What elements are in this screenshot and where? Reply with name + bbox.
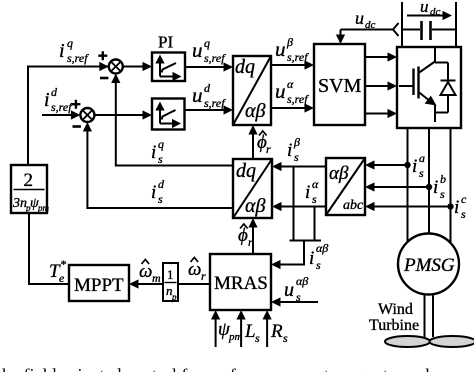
MRAS input Ls <box>240 318 242 347</box>
svg-text:abc: abc <box>343 198 364 213</box>
wire id feedback to S2 <box>87 129 233 209</box>
wire S2 to PI2 <box>94 114 145 116</box>
capacitor C <box>402 21 456 40</box>
svg-text:s: s <box>158 192 163 206</box>
MRAS input Rs <box>266 318 268 347</box>
svg-text:r: r <box>266 142 271 156</box>
label ub s,ref <box>275 35 309 64</box>
label iq s,ref <box>59 36 89 65</box>
blade right <box>430 336 474 347</box>
wire iq feedback to S1 <box>116 80 233 166</box>
shaft <box>424 294 426 337</box>
svg-text:u: u <box>275 79 286 103</box>
wire i alpha-beta bus to MRAS <box>293 167 295 241</box>
svg-text:s: s <box>158 152 163 166</box>
svg-text:s: s <box>255 331 260 345</box>
PI block PI1 <box>152 53 185 82</box>
u_dc sense wire to SVM <box>393 23 399 36</box>
minus sign at S1 <box>100 77 108 80</box>
label ia s <box>412 151 425 180</box>
svg-text:i: i <box>309 248 314 269</box>
svg-text:dc: dc <box>365 19 376 31</box>
svg-text:α: α <box>312 177 319 191</box>
svg-text:u: u <box>355 8 364 28</box>
svg-text:αβ: αβ <box>296 274 308 288</box>
svg-text:αβ: αβ <box>329 163 349 184</box>
svg-text:s: s <box>283 331 288 345</box>
svg-text:ω: ω <box>188 259 201 280</box>
svg-text:a: a <box>419 151 425 165</box>
svg-text:he field-oriented control form: he field-oriented control form of a perm… <box>2 365 467 372</box>
MRAS input psi_pm <box>215 318 217 347</box>
svg-text:u: u <box>420 0 429 16</box>
svg-text:Wind: Wind <box>378 301 413 318</box>
svg-text:s,ref: s,ref <box>287 50 309 64</box>
svg-text:MPPT: MPPT <box>74 275 124 296</box>
wire us alpha-beta to MRAS <box>279 301 318 303</box>
label phi_r hat (lower) <box>238 225 253 249</box>
label ib s <box>433 172 446 201</box>
wire id_s,ref input <box>42 114 73 116</box>
svg-text:α: α <box>287 77 294 91</box>
label id s <box>151 177 165 206</box>
svg-text:s,ref: s,ref <box>204 96 226 110</box>
arrow into summing junction S1 <box>99 62 109 71</box>
converter block <box>397 47 461 128</box>
plus sign at S2 <box>71 100 80 109</box>
svg-text:ω: ω <box>139 261 152 282</box>
wire phi_r hat MRAS to dq2 <box>252 225 254 254</box>
label phi_r hat (upper) <box>257 132 271 156</box>
wire dq1 to SVM (beta) <box>271 64 307 66</box>
label u alpha-beta s <box>284 274 308 304</box>
svg-text:s: s <box>316 258 321 272</box>
svg-text:c: c <box>461 192 467 206</box>
svg-text:s: s <box>294 150 299 164</box>
svg-text:αβ: αβ <box>245 100 265 122</box>
svg-text:s,ref: s,ref <box>67 51 89 65</box>
svg-text:i: i <box>454 197 459 218</box>
summing junction S2 <box>80 108 94 122</box>
u_dc arrow across dc link <box>407 15 445 17</box>
svg-text:s: s <box>296 290 301 304</box>
phase wire a <box>407 128 409 243</box>
label omega_m hat <box>139 261 161 285</box>
wire ic to abc transform <box>372 206 451 208</box>
MPPT block <box>69 265 129 301</box>
IGBT Q1 <box>399 47 437 122</box>
svg-text:q: q <box>67 36 73 50</box>
svg-text:β: β <box>286 35 293 49</box>
svg-text:s,ref: s,ref <box>51 100 73 114</box>
svg-text:u: u <box>284 279 294 301</box>
wire ib to abc transform <box>372 186 429 188</box>
svg-text:i: i <box>44 89 50 111</box>
phase wire c <box>450 128 452 243</box>
svg-text:pm: pm <box>37 203 50 213</box>
wire 1/np to MPPT <box>137 283 163 285</box>
PMSG generator <box>398 234 459 295</box>
svg-text:i: i <box>305 182 310 203</box>
svg-text:1: 1 <box>167 267 174 282</box>
gain block 1/np <box>163 263 178 301</box>
plus sign at S1 <box>98 51 107 60</box>
dc rail left <box>401 2 403 47</box>
wire SVM to converter 1 <box>365 56 390 58</box>
label uq s,ref <box>192 36 226 65</box>
wire MPPT to gain block K <box>29 213 69 284</box>
label i beta s <box>287 135 300 164</box>
svg-text:i: i <box>151 182 156 203</box>
wire PI1 to dq1, uq s,ref <box>185 66 226 68</box>
transform block dq1 (dq to alpha-beta) <box>233 56 271 125</box>
label omega_r hat <box>188 259 206 283</box>
svg-text:s: s <box>419 166 424 180</box>
svg-text:αβ: αβ <box>245 195 265 217</box>
svg-text:s,ref: s,ref <box>204 51 226 65</box>
label Wind Turbine <box>369 301 419 334</box>
freewheeling diode D1 <box>435 63 456 113</box>
svg-text:dc: dc <box>430 6 441 18</box>
svg-text:αβ: αβ <box>316 241 328 255</box>
svg-text:Turbine: Turbine <box>369 317 419 334</box>
svg-text:3n: 3n <box>12 196 27 211</box>
gain block 2/(3 np psi_pm) <box>11 165 47 213</box>
svg-text:e: e <box>59 271 65 285</box>
svg-text:p: p <box>171 292 177 302</box>
svg-text:d: d <box>51 85 58 99</box>
PI block PI2 <box>152 99 185 130</box>
svg-text:i: i <box>433 177 438 198</box>
transform block dq2 (alpha-beta to dq) <box>233 159 272 218</box>
label u_dc (sense) <box>355 8 376 31</box>
MRAS block <box>210 254 271 310</box>
svg-text:β: β <box>293 135 300 149</box>
wire dq1 to SVM (alpha) <box>271 107 307 109</box>
svg-text:s,ref: s,ref <box>287 92 309 106</box>
svg-text:s: s <box>440 187 445 201</box>
svg-text:PI: PI <box>158 33 173 52</box>
svg-text:i: i <box>151 142 156 163</box>
wire ia to abc transform <box>372 164 408 166</box>
svg-text:PMSG: PMSG <box>403 255 455 276</box>
svg-text:u: u <box>192 83 203 107</box>
label ic s <box>454 192 467 221</box>
svg-text:u: u <box>275 37 286 61</box>
wire i alpha to dq2 <box>280 206 326 208</box>
svg-text:b: b <box>440 172 446 186</box>
wire phi_r hat dq2 to dq1 <box>252 132 254 159</box>
minus sign at S2 <box>73 125 81 128</box>
svg-text:dq: dq <box>236 160 256 182</box>
svg-text:L: L <box>244 321 256 342</box>
svg-text:r: r <box>248 235 253 249</box>
label iq s <box>151 137 164 166</box>
svg-text:r: r <box>201 269 206 283</box>
tap node b <box>426 184 432 190</box>
svg-text:s: s <box>461 207 466 221</box>
SVM block <box>314 44 365 125</box>
svg-text:q: q <box>204 36 210 50</box>
tap node c <box>447 203 453 209</box>
label u_dc (dc link) <box>420 0 441 18</box>
blade left <box>385 336 430 347</box>
svg-text:d: d <box>158 177 165 191</box>
summing junction S1 <box>109 60 123 74</box>
svg-text:dq: dq <box>235 56 255 78</box>
svg-text:q: q <box>158 137 164 151</box>
svg-text:i: i <box>59 40 65 62</box>
svg-text:2: 2 <box>24 170 34 191</box>
label id s,ref <box>44 85 73 114</box>
wire i beta to dq2 <box>280 166 326 168</box>
tap node a <box>404 162 410 168</box>
wire SVM to converter 3 <box>365 113 390 115</box>
dc rail right <box>455 2 457 47</box>
svg-text:i: i <box>412 156 417 177</box>
svg-text:m: m <box>152 271 161 285</box>
transform block abc to alpha-beta <box>326 158 365 215</box>
label i alpha s <box>305 177 319 206</box>
svg-text:s: s <box>312 192 317 206</box>
svg-text:u: u <box>192 38 203 62</box>
wire MRAS to 1/np <box>178 283 210 285</box>
svg-text:SVM: SVM <box>318 75 362 97</box>
label i alpha-beta s <box>309 241 328 272</box>
svg-text:i: i <box>287 140 292 161</box>
label ud s,ref <box>192 81 226 110</box>
svg-text:R: R <box>270 321 283 342</box>
svg-text:*: * <box>60 257 66 271</box>
wire iq_s,ref reference rail <box>28 67 108 166</box>
phase wire b <box>428 128 430 235</box>
svg-text:d: d <box>204 81 211 95</box>
svg-text:MRAS: MRAS <box>214 273 268 294</box>
wire SVM to converter 2 <box>365 85 390 87</box>
wire PI2 to dq1, ud s,ref <box>185 109 227 111</box>
label Te* <box>49 257 66 285</box>
wire S1 to PI1 <box>123 66 145 68</box>
label ua s,ref <box>275 77 309 106</box>
